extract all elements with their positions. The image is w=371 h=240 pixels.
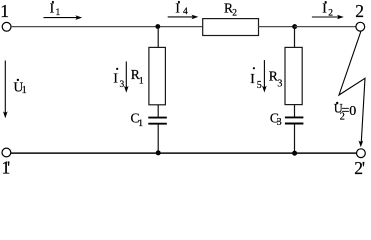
svg-text:4: 4 [183,7,188,17]
wire branch R1 to C1 lead [157,105,159,117]
label I4 [175,0,188,17]
node C junction dot (bottom, branch R1C1) [156,150,161,155]
label C1 [131,110,144,129]
wire branch C3 bottom lead [294,124,296,153]
label I3 [113,68,124,90]
wire bottom segment (terminal 1' to terminal 2') [11,152,357,154]
node B junction dot (top, branch R3C3) [292,24,297,29]
label C3 [270,111,282,129]
label I1 [50,0,61,17]
node A junction dot (top, branch R1C1) [155,24,160,29]
terminal 1 [2,22,11,31]
resistor R1 [149,47,166,104]
svg-text:5: 5 [257,80,262,91]
label R3 [269,68,283,89]
current arrow I3 [124,62,129,93]
svg-text:=: = [342,104,350,119]
svg-text:1: 1 [56,8,61,18]
label R1 [131,67,144,87]
label R2 [224,1,237,19]
svg-text:3: 3 [120,80,125,90]
current arrow I4 [168,15,199,20]
svg-text:I: I [113,70,118,85]
current arrow I1 [44,15,83,20]
wire branch R3C3 top lead [294,27,296,48]
svg-text:1: 1 [0,1,9,21]
terminal 2' [357,149,366,158]
svg-text:': ' [362,158,365,178]
svg-text:1: 1 [139,77,144,87]
current arrow I5 [262,60,267,92]
label U2 = 0 [334,102,357,123]
svg-text:1: 1 [138,119,143,129]
short-circuit arrow U2 (lightning bolt from terminal 2 to terminal 2') [339,32,365,148]
resistor R2 [203,19,259,36]
voltage arrow U1 [3,61,8,119]
svg-text:1: 1 [22,85,27,96]
resistor R3 [285,47,302,104]
label I5 [250,67,262,91]
label I2 [322,1,333,19]
wire branch C1 bottom lead [157,125,159,153]
wire top right segment (node B to terminal 2) [295,26,356,28]
capacitor C1 [148,118,167,124]
label U1 [14,79,27,96]
svg-text:3: 3 [277,79,282,90]
terminal 1' [2,148,11,157]
terminal 2 [356,22,365,31]
svg-text:0: 0 [349,104,356,119]
wire top left segment (node 1 to node A) [11,26,203,28]
svg-text:2: 2 [328,9,333,19]
capacitor C3 [285,117,304,123]
svg-text:2: 2 [355,1,364,21]
current arrow I2 [312,15,344,20]
svg-text:I: I [250,71,255,86]
node D junction dot (bottom, branch R3C3) [292,151,297,156]
svg-text:': ' [7,158,10,178]
wire top middle segment (R2 to node B) [259,26,295,28]
wire branch R1C1 top lead [157,27,159,48]
svg-text:3: 3 [277,117,282,128]
wire branch R3 to C3 lead [294,105,296,117]
svg-text:2: 2 [232,9,237,19]
